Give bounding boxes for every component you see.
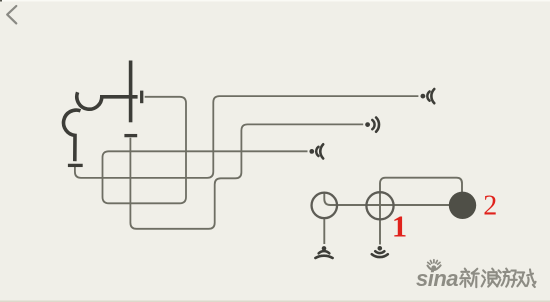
svg-text:1: 1	[392, 210, 407, 244]
transmitter T	[365, 118, 379, 132]
watermark character 戏	[517, 269, 535, 287]
watermark character 新	[460, 269, 479, 288]
watermark character 游	[497, 269, 517, 287]
watermark character 浪	[482, 269, 498, 287]
wire from ground transmitter G2 up through button C2, link over to ball B3	[380, 178, 462, 245]
pin B cap	[140, 91, 143, 104]
back button chevron	[7, 6, 16, 23]
watermark sina eye icon	[428, 260, 441, 270]
ground receiver G1 (down-facing frown arcs)	[315, 246, 332, 258]
pin B with hook	[77, 92, 138, 109]
pin A	[129, 61, 133, 123]
svg-text:2: 2	[483, 190, 497, 221]
button C2	[366, 192, 393, 219]
button C1	[312, 193, 338, 219]
wire from pin C cap to receiver R1	[75, 96, 419, 178]
receiver R1	[421, 89, 435, 103]
ball B3 filled	[449, 192, 476, 219]
wire from button C1 down to ground receiver G1	[323, 218, 325, 244]
pin C with hook	[64, 110, 81, 161]
pin A cap	[124, 134, 137, 137]
receiver R3	[309, 144, 323, 158]
wire through button C1 to ball B3	[324, 193, 449, 205]
ground transmitter G2 (down-facing smile arcs)	[372, 246, 388, 257]
pin C cap	[68, 164, 83, 167]
wire from pin A cap to transmitter T	[130, 124, 363, 228]
wire from pin B cap to receiver R3 (hairpin)	[102, 97, 307, 204]
